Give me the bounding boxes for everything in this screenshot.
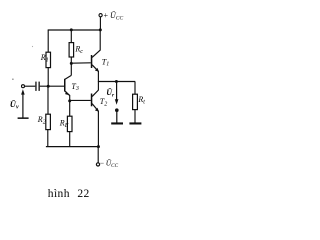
wire bottom rail	[46, 146, 99, 148]
wire input to capacitor	[25, 85, 36, 87]
ground (under Rt)	[129, 122, 141, 124]
wire RE branch	[69, 101, 71, 147]
svg-text:hình 22: hình 22	[48, 188, 90, 200]
wire Rc branch (rail to base-wire node)	[70, 30, 72, 64]
resistor R2	[37, 114, 51, 129]
speck (scan artifact)	[32, 46, 33, 47]
wire T1 emitter down to output node	[97, 71, 99, 82]
voltage arrow Ur (output)	[106, 82, 118, 123]
speck (scan artifact)	[12, 79, 13, 80]
wire capacitor to T3 base	[40, 85, 64, 87]
node junction bottom rail / -Ucc	[97, 145, 100, 148]
node junction Rc top rail	[70, 28, 73, 31]
capacitor C (coupling)	[35, 82, 40, 91]
wire T3 collector riser	[65, 63, 71, 79]
wire output node rail	[98, 81, 135, 83]
supply terminal +Ucc	[99, 11, 123, 30]
node junction R1/R2/base wire	[47, 85, 50, 88]
transistor T3	[64, 79, 79, 96]
wire T1 base wire	[71, 62, 91, 64]
node junction T3 emitter / RE / T2 base	[68, 99, 71, 102]
voltage arrow Uv (input)	[10, 89, 29, 119]
wire top rail	[48, 29, 101, 31]
resistor Rc	[69, 43, 83, 57]
resistor Rt	[133, 94, 146, 109]
node junction supply on rail	[99, 28, 102, 31]
wire Rt branch	[134, 82, 136, 123]
transistor T1	[91, 50, 109, 72]
wire T3 emitter down to node	[69, 95, 71, 101]
wire T2 emitter down to bottom rail	[97, 111, 99, 147]
node junction Rc / T1 base / T3 collector	[70, 62, 73, 65]
transistor T2	[91, 90, 107, 112]
resistor R1	[40, 52, 51, 67]
wire T2 collector up to output node	[97, 82, 99, 91]
wire R1 branch (rail corner down to base node)	[47, 30, 49, 87]
supply terminal -Ucc	[96, 147, 118, 169]
wire T2 base wire	[70, 99, 91, 101]
node junction output / Ur	[115, 80, 118, 83]
input terminal circle	[22, 85, 25, 88]
wire T1 collector to rail	[99, 30, 101, 51]
wire R2 branch	[47, 86, 49, 147]
resistor RE	[59, 116, 72, 131]
ground (under Ur)	[111, 122, 123, 124]
